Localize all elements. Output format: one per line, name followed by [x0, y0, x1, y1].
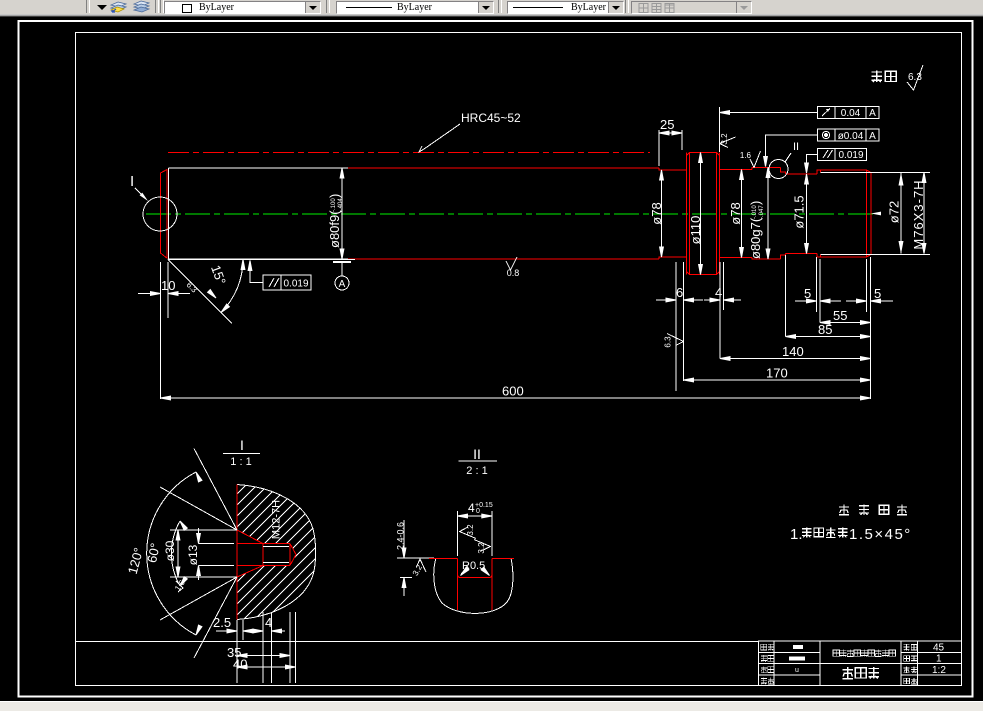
dim o30 [170, 529, 237, 531]
right labels [904, 644, 910, 650]
layer icon 1 [109, 0, 129, 14]
dim 10 [160, 262, 162, 308]
thread minor white [147, 449, 296, 684]
signatures [793, 645, 803, 649]
row labels [761, 644, 767, 650]
detail II red profile [429, 559, 514, 611]
svg-text:ø0.04: ø0.04 [838, 131, 864, 142]
svg-text:ø71.5: ø71.5 [792, 195, 807, 228]
step at 659 [659, 168, 687, 170]
centerline end arrow [871, 212, 881, 216]
svg-text:3.2: 3.2 [466, 524, 475, 536]
shaft body white segment [169, 168, 349, 259]
svg-text:1:2: 1:2 [932, 665, 946, 676]
15 deg chamfer callout [168, 260, 232, 324]
part name 活塞杆 [842, 667, 853, 678]
roughness 1.6 on o80g7 [750, 151, 761, 168]
svg-text:1.5×45°: 1.5×45° [849, 526, 912, 543]
dim o78 right [741, 170, 743, 258]
60 deg arc [171, 521, 180, 586]
fcf concentricity o0.04 A [818, 129, 880, 141]
dim 5 second [866, 259, 868, 312]
dim M76X3-7H [923, 173, 925, 254]
dim 40 [295, 612, 297, 683]
svg-text:A: A [339, 279, 346, 290]
dim 85 [785, 255, 787, 337]
svg-text:-.100: -.100 [331, 198, 337, 212]
section o78 after flange [720, 170, 753, 258]
fcf parallel 0.019 right [818, 149, 867, 161]
dim 4+0.15 [457, 511, 459, 556]
svg-text:0.04: 0.04 [841, 108, 861, 119]
svg-text:2.5: 2.5 [213, 615, 231, 630]
svg-text:ø80g7(: ø80g7( [748, 217, 763, 259]
dim 4 [262, 612, 264, 683]
svg-text:85: 85 [818, 322, 832, 337]
dim 25 [658, 130, 660, 166]
svg-text:1.6: 1.6 [740, 151, 752, 160]
dim 2.4 depth [397, 557, 434, 559]
dim o80f9 [341, 168, 343, 259]
roughness 1.6 on cone [176, 581, 183, 592]
roughness 0.8 [506, 257, 517, 270]
dim 35 [236, 620, 238, 683]
dim 4 [719, 262, 721, 359]
svg-text:3.2: 3.2 [477, 542, 486, 554]
svg-text:55: 55 [833, 308, 847, 323]
lineweight ByLayer combo [507, 1, 624, 14]
svg-text:M12-7H: M12-7H [271, 500, 283, 539]
svg-text:II: II [473, 446, 481, 462]
svg-text:ø13: ø13 [186, 544, 200, 565]
svg-text:5: 5 [804, 286, 811, 301]
fcf parallel 0.019 left [263, 275, 311, 290]
svg-text:1.: 1. [790, 526, 803, 543]
toolbar overflow arrow [97, 5, 107, 10]
svg-text:ø80f9(: ø80f9( [327, 210, 342, 248]
hardening zone dashdot line [168, 152, 650, 154]
svg-text:I: I [130, 173, 134, 190]
dim o71.5 [806, 174, 808, 254]
dim 6 [675, 262, 677, 391]
dim 140 [720, 358, 871, 360]
svg-text:ø110: ø110 [688, 216, 703, 245]
120 deg arc [147, 472, 196, 635]
svg-text:I: I [240, 437, 244, 453]
o80g7 section [752, 168, 781, 260]
dim 170 [684, 379, 871, 381]
svg-text:0.8: 0.8 [507, 268, 520, 278]
thread section [817, 170, 871, 257]
svg-text:ø78: ø78 [649, 202, 664, 224]
svg-text:HRC45~52: HRC45~52 [461, 111, 521, 125]
svg-text:): ) [327, 194, 342, 198]
layer icon 2 [131, 0, 151, 14]
thread minor dia white lines [821, 173, 931, 255]
svg-text:140: 140 [782, 344, 804, 359]
svg-text:1: 1 [936, 654, 942, 665]
svg-text:u: u [795, 667, 799, 674]
svg-text:2.4-0.6: 2.4-0.6 [396, 522, 406, 550]
svg-text:ø78: ø78 [728, 202, 743, 224]
svg-text:-.404: -.404 [338, 198, 344, 212]
plot style combo (disabled) [631, 1, 752, 14]
svg-text:4: 4 [468, 501, 475, 515]
dim 5 first [816, 257, 818, 312]
status bar [0, 701, 983, 711]
black void of center hole [237, 530, 296, 577]
dim 2.5 [242, 620, 244, 640]
cone flare lines [194, 449, 237, 531]
toolbar [0, 0, 983, 15]
school name [833, 650, 840, 656]
dim o110 [700, 153, 702, 275]
svg-text:5: 5 [874, 286, 881, 301]
centerline [146, 213, 876, 215]
roughness 6.3 below [667, 334, 684, 346]
datum A [333, 261, 351, 263]
tech requirements [790, 505, 912, 543]
detail II circle [769, 160, 788, 179]
dim 600 [160, 300, 162, 399]
detail I circle [143, 197, 177, 231]
title block [759, 641, 962, 686]
blob [434, 558, 513, 613]
linetype ByLayer combo [336, 1, 494, 14]
shaft left chamfer red [161, 170, 168, 259]
svg-text:4: 4 [715, 285, 722, 300]
dim o78 left [661, 170, 663, 257]
dim 55 [820, 322, 871, 324]
svg-text:M76X3-7H: M76X3-7H [911, 179, 926, 249]
svg-text:600: 600 [502, 384, 524, 399]
svg-text:4: 4 [265, 615, 272, 630]
svg-text:0.019: 0.019 [838, 150, 863, 161]
flange o110 [687, 153, 720, 275]
o71.5 section [786, 174, 818, 254]
roughness 3.2 at flange face [720, 137, 736, 148]
fcf runout 0.04 A [818, 107, 880, 119]
svg-text:-.047: -.047 [759, 205, 765, 219]
shaft body red outline [348, 153, 871, 275]
svg-text:0: 0 [476, 508, 480, 515]
svg-text:25: 25 [660, 117, 674, 132]
svg-text:): ) [748, 201, 763, 205]
dim o80g7 [767, 168, 769, 260]
blob outline [237, 485, 316, 620]
其余 6.3 symbol top right [871, 65, 923, 90]
svg-text:ø30: ø30 [163, 540, 177, 561]
svg-text:3.2: 3.2 [720, 133, 729, 145]
svg-text:A: A [869, 108, 876, 119]
title block strip line [76, 641, 759, 643]
svg-text:2 : 1: 2 : 1 [466, 465, 487, 477]
svg-text:10: 10 [161, 278, 175, 293]
svg-text:170: 170 [766, 366, 788, 381]
svg-text:6.3: 6.3 [664, 336, 673, 348]
dim o72 [900, 173, 902, 254]
svg-text:0.019: 0.019 [283, 279, 308, 290]
texts detail I [163, 540, 177, 561]
svg-text:40: 40 [233, 657, 247, 672]
svg-text:ø72: ø72 [887, 201, 902, 223]
groove II [781, 168, 786, 260]
detail I red profile [237, 485, 296, 620]
svg-text:1 : 1: 1 : 1 [230, 456, 251, 468]
roughness 3.2 marks [460, 527, 477, 539]
svg-text:45: 45 [933, 643, 945, 654]
dim o13 [199, 543, 235, 545]
color ByLayer combo [164, 1, 321, 14]
svg-text:-.010: -.010 [752, 205, 758, 219]
svg-text:6: 6 [676, 285, 683, 300]
svg-text:A: A [869, 131, 876, 142]
svg-text:II: II [793, 141, 799, 153]
